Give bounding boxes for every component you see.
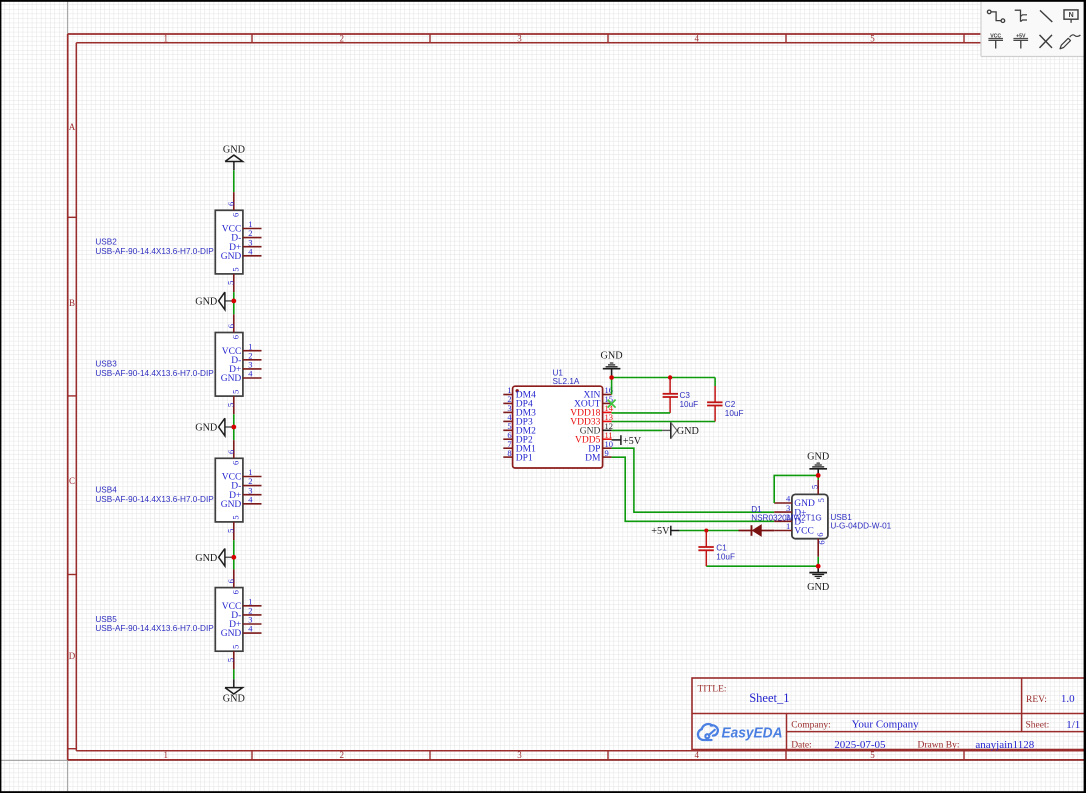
label USB5 name and footprint (95, 615, 214, 633)
ground flag GND at pin 12 (662, 422, 699, 439)
ground symbol GND above USB1 (807, 451, 829, 475)
svg-text:Company:: Company: (791, 720, 831, 730)
svg-text:A: A (69, 122, 76, 132)
svg-text:6: 6 (226, 579, 236, 583)
wire GND pin 12 (612, 429, 663, 431)
svg-text:4: 4 (248, 369, 253, 379)
svg-text:8: 8 (507, 448, 511, 458)
wire USB5 pin 5 to ground (233, 669, 235, 679)
svg-text:3: 3 (517, 750, 522, 760)
svg-text:DM: DM (585, 453, 601, 463)
svg-text:SL2.1A: SL2.1A (553, 377, 580, 386)
junction above USB1 (816, 473, 821, 478)
toolbar icon no-connect X (1040, 35, 1053, 48)
wire C2 to VDD33 pin 13 (612, 421, 716, 423)
junction (231, 555, 236, 560)
junction above C3 (668, 375, 672, 379)
wire between connectors (233, 292, 235, 314)
svg-text:6: 6 (815, 532, 825, 536)
svg-text:1: 1 (786, 521, 790, 531)
svg-text:GND: GND (223, 145, 245, 156)
junction at C1 top (704, 529, 708, 533)
wire bottom junction to C1 (706, 565, 818, 567)
svg-text:USB-AF-90-14.4X13.6-H7.0-DIP: USB-AF-90-14.4X13.6-H7.0-DIP (95, 495, 214, 504)
title block texts (698, 684, 1081, 751)
label USB3 name and footprint (95, 360, 214, 378)
ground flag GND (side) (195, 418, 234, 436)
svg-text:6: 6 (817, 540, 827, 544)
svg-text:GND: GND (677, 426, 699, 437)
svg-text:5: 5 (226, 529, 236, 533)
svg-text:N: N (1069, 12, 1074, 19)
svg-text:GND: GND (807, 451, 829, 462)
power flag +5V near C1 (651, 526, 679, 537)
svg-text:GND: GND (807, 582, 829, 593)
connector USB1 U-G-04DD-W-01 (774, 480, 828, 557)
svg-text:Sheet_1: Sheet_1 (749, 691, 789, 705)
svg-text:5: 5 (226, 658, 236, 662)
frame column and row labels (69, 33, 876, 760)
toolbar icon netlabel tool (1064, 10, 1078, 23)
svg-text:D: D (69, 651, 76, 661)
svg-text:5: 5 (870, 750, 875, 760)
label D1 name and part (751, 505, 822, 522)
svg-text:1: 1 (164, 750, 169, 760)
svg-text:6: 6 (230, 590, 240, 594)
svg-text:4: 4 (695, 750, 700, 760)
svg-text:6: 6 (230, 213, 240, 217)
svg-text:6: 6 (230, 461, 240, 465)
ground flag GND (side) (195, 292, 234, 310)
svg-text:USB2: USB2 (95, 238, 117, 247)
svg-text:USB-AF-90-14.4X13.6-H7.0-DIP: USB-AF-90-14.4X13.6-H7.0-DIP (95, 369, 214, 378)
IC U1 SL2.1A (503, 385, 613, 468)
wire +5V to junction (680, 530, 707, 532)
svg-text:NSR0320MW2T1G: NSR0320MW2T1G (751, 513, 822, 522)
svg-text:GND: GND (195, 553, 217, 564)
svg-text:5: 5 (810, 485, 820, 489)
svg-text:6: 6 (230, 335, 240, 339)
toolbar panel (981, 2, 1086, 57)
svg-text:GND: GND (195, 423, 217, 434)
connector USB3 USB-AF-90-14.4X13.6-H7.0-DIP (215, 314, 261, 414)
wire junction to diode (706, 530, 738, 532)
svg-text:USB3: USB3 (95, 360, 117, 369)
wire GND flag to USB2 pin 6 (233, 170, 235, 192)
svg-text:4: 4 (248, 246, 253, 256)
svg-text:B: B (69, 298, 75, 308)
svg-text:C: C (69, 476, 75, 486)
wire junction to GND pin 4 (774, 475, 818, 503)
svg-text:5: 5 (230, 267, 240, 271)
svg-text:DP1: DP1 (516, 453, 533, 463)
svg-text:1: 1 (164, 33, 169, 43)
svg-text:USB-AF-90-14.4X13.6-H7.0-DIP: USB-AF-90-14.4X13.6-H7.0-DIP (95, 624, 214, 633)
toolbar icon +5V flag (1013, 33, 1028, 48)
junction (231, 299, 236, 304)
svg-text:Sheet:: Sheet: (1026, 721, 1050, 731)
connector USB2 USB-AF-90-14.4X13.6-H7.0-DIP (215, 192, 261, 292)
wire C3 to VDD18 pin 14 (612, 412, 671, 414)
svg-text:VCC: VCC (794, 527, 814, 537)
svg-text:anayjain1128: anayjain1128 (975, 739, 1034, 751)
label U1 name and part number (553, 369, 580, 387)
svg-text:REV:: REV: (1026, 695, 1047, 705)
svg-text:GND: GND (221, 500, 242, 510)
toolbar icon VCC flag (988, 33, 1003, 48)
svg-text:TITLE:: TITLE: (698, 684, 727, 694)
wire DM pin 9 to USB1 D- (612, 457, 775, 521)
capacitor C1 10uF (698, 531, 735, 567)
svg-text:USB4: USB4 (95, 486, 117, 495)
svg-text:3: 3 (517, 33, 522, 43)
svg-text:Date:: Date: (791, 741, 812, 751)
svg-text:Your Company: Your Company (852, 718, 920, 730)
wire GND rail to C3/C2 (612, 377, 716, 379)
svg-text:4: 4 (248, 624, 253, 634)
svg-text:1.0: 1.0 (1061, 693, 1075, 705)
wire pin 6 to bottom junction (817, 557, 819, 566)
svg-text:C1: C1 (716, 543, 727, 552)
svg-text:USB5: USB5 (95, 615, 117, 624)
svg-text:1/1: 1/1 (1066, 719, 1080, 731)
svg-text:GND: GND (221, 374, 242, 384)
ground flag GND (top of USB2) (223, 145, 245, 171)
connector USB5 USB-AF-90-14.4X13.6-H7.0-DIP (215, 569, 261, 669)
ground symbol GND above U1 (601, 351, 623, 378)
junction at GND/XIN (609, 375, 614, 380)
EasyEDA logo (698, 724, 783, 742)
svg-text:2: 2 (340, 750, 345, 760)
svg-text:4: 4 (248, 494, 253, 504)
svg-text:5: 5 (816, 498, 826, 502)
svg-text:GND: GND (601, 351, 623, 362)
svg-text:6: 6 (226, 202, 236, 206)
svg-text:5: 5 (870, 33, 875, 43)
svg-text:U-G-04DD-W-01: U-G-04DD-W-01 (830, 521, 891, 530)
svg-text:USB-AF-90-14.4X13.6-H7.0-DIP: USB-AF-90-14.4X13.6-H7.0-DIP (95, 247, 214, 256)
label USB4 name and footprint (95, 486, 214, 504)
svg-text:2025-07-05: 2025-07-05 (834, 739, 886, 751)
svg-text:GND: GND (195, 296, 217, 307)
svg-text:6: 6 (226, 324, 236, 328)
toolbar icon bus tool (1015, 10, 1027, 22)
svg-text:6: 6 (226, 450, 236, 454)
toolbar icon line tool (1040, 10, 1052, 22)
label USB1 name and part (830, 513, 891, 530)
junction below USB1 (816, 564, 821, 569)
svg-text:C3: C3 (680, 391, 691, 400)
svg-text:+5V: +5V (623, 436, 642, 447)
wire top junction to pin 5 (817, 475, 819, 479)
wire between connectors (233, 414, 235, 440)
ground symbol GND below USB1 (807, 566, 829, 593)
svg-text:Drawn By:: Drawn By: (918, 741, 960, 751)
ground flag GND (bottom of USB5) (223, 679, 245, 704)
svg-text:GND: GND (223, 693, 245, 704)
svg-text:5: 5 (226, 403, 236, 407)
no-connect X on pin 15 XOUT (608, 400, 616, 408)
toolbar icon wire tool (987, 10, 1004, 22)
ground flag GND (side) (195, 549, 234, 567)
toolbar icon pen tool (1060, 35, 1080, 49)
svg-text:5: 5 (230, 390, 240, 394)
svg-text:9: 9 (605, 448, 609, 458)
wire GND to XIN pin 16 (611, 378, 613, 395)
connector USB4 USB-AF-90-14.4X13.6-H7.0-DIP (215, 440, 261, 540)
diode D1 NSR0320MW2T1G (739, 525, 775, 536)
junction (231, 425, 236, 430)
svg-text:10uF: 10uF (716, 553, 735, 562)
svg-text:GND: GND (221, 252, 242, 262)
svg-text:5: 5 (226, 281, 236, 285)
title block (692, 678, 1086, 750)
svg-text:C2: C2 (725, 400, 736, 409)
svg-text:5: 5 (230, 515, 240, 519)
label USB2 name and footprint (95, 238, 214, 256)
power flag +5V at pin 11 (612, 435, 642, 447)
svg-text:2: 2 (340, 33, 345, 43)
svg-text:4: 4 (695, 33, 700, 43)
svg-text:5: 5 (230, 645, 240, 649)
svg-text:+5V: +5V (651, 526, 670, 537)
svg-text:EasyEDA: EasyEDA (722, 726, 783, 742)
capacitor C2 10uF (707, 378, 743, 422)
svg-text:10uF: 10uF (680, 400, 699, 409)
wire between connectors (233, 540, 235, 569)
svg-text:10uF: 10uF (725, 409, 744, 418)
capacitor C3 10uF (663, 378, 699, 413)
wire DP pin 10 to USB1 D+ (612, 448, 775, 512)
svg-text:GND: GND (221, 629, 242, 639)
